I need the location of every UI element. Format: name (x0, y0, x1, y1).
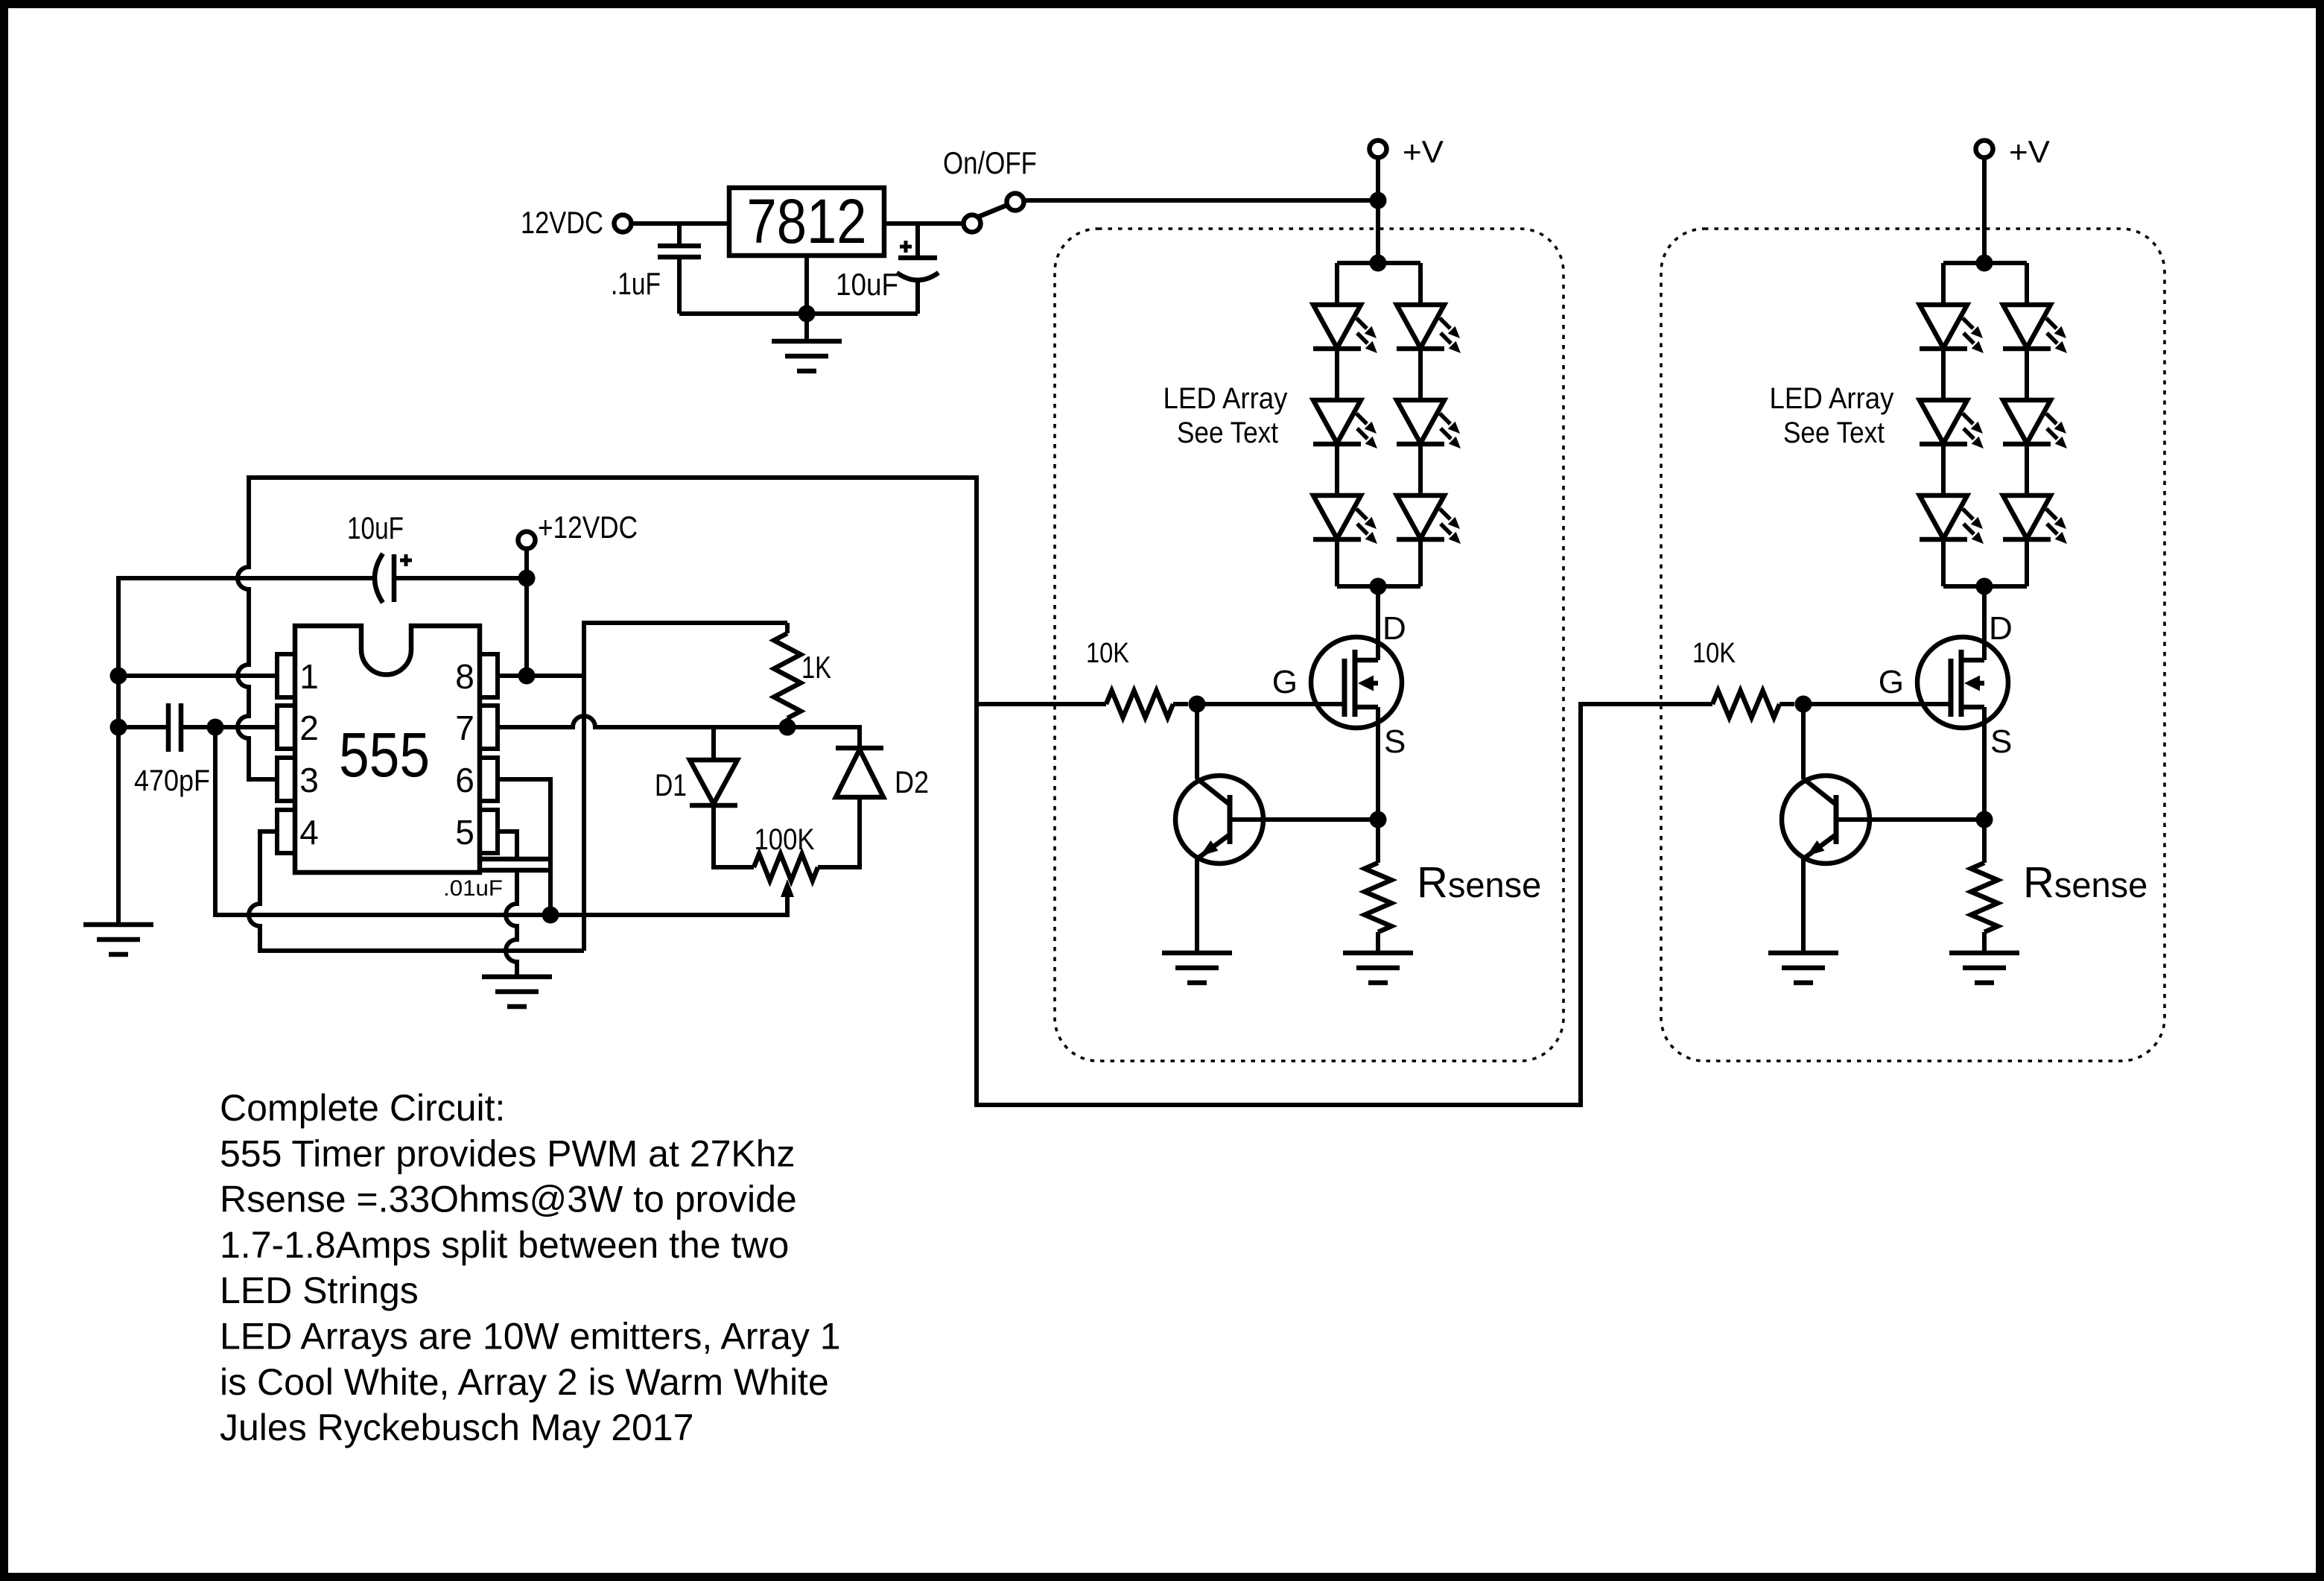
wire to ground symbol (804, 314, 809, 341)
diode D2 lead bottom (818, 797, 860, 867)
wire input to 7812 (632, 221, 729, 226)
svg-text:10uF: 10uF (347, 510, 404, 545)
capacitor C3 10uF left wire (118, 578, 374, 925)
capacitor C5 .01uF lead bottom (506, 870, 517, 977)
label +V array 1 (1403, 134, 1444, 169)
wire LED bottom rail array 1 (1337, 584, 1420, 589)
ground 7812 (772, 341, 842, 371)
capacitor C3 10uF right wire (394, 576, 527, 580)
wire 7812 ground pin (804, 256, 809, 314)
wire LED top rail array 2 (1943, 261, 2027, 265)
capacitor C4 470pF plates (168, 703, 181, 752)
svg-text:555 Timer provides PWM at 27Kh: 555 Timer provides PWM at 27Khz (220, 1132, 796, 1174)
label 10uF bypass (347, 510, 404, 545)
diode D2 triangle (836, 750, 883, 797)
diode D1 cathode bar (690, 803, 737, 808)
node pin6 timing junction (542, 907, 559, 924)
svg-text:G: G (1879, 664, 1904, 700)
LED array 2 left 3 (1920, 495, 1984, 544)
transistor Q2 BJT array 1 (1175, 776, 1263, 864)
svg-text:.1uF: .1uF (611, 266, 661, 301)
capacitor C2 10uF lead bottom (915, 282, 920, 314)
LED array 1 right 1 (1397, 305, 1461, 353)
label 555 (339, 720, 430, 790)
label D1 (655, 767, 687, 802)
wire collector drop array 2 (1801, 704, 1806, 779)
wire pin8 lead (498, 674, 584, 678)
wire vcc riser and 1K top run (584, 623, 787, 951)
label 470pF (134, 764, 210, 797)
node LED top rail junction array 2 (1976, 255, 1993, 272)
potentiometer R3 100K body (754, 854, 818, 881)
wire pin6 net (498, 779, 550, 915)
IC U2 pin numbers (299, 657, 474, 852)
resistor R2 1K leads (785, 623, 790, 727)
svg-text:LED Strings: LED Strings (220, 1270, 419, 1311)
wire LED array 2 seg 2 (1943, 444, 2027, 495)
node 470pF ground junction (110, 719, 127, 736)
svg-text:10K: 10K (1692, 638, 1736, 669)
label G array 1 (1272, 664, 1298, 700)
LED array 1 left 3 (1313, 495, 1377, 544)
node 7812 ground junction (799, 305, 816, 323)
svg-text:LED Arrays are 10W emitters, A: LED Arrays are 10W emitters, Array 1 (220, 1316, 841, 1357)
svg-text:Rsense: Rsense (2023, 858, 2147, 907)
capacitor C4 470pF right wire (183, 725, 277, 729)
wire gate array 1 (1197, 702, 1344, 706)
terminal +V array 1 (1370, 141, 1387, 158)
wire pin2 node drop and timing bus (215, 727, 787, 915)
regulator U1 7812 box (729, 188, 884, 256)
wire pin1 (118, 674, 277, 678)
capacitor C1 .1uF plates (658, 246, 701, 257)
wire LED array 2 seg 1 (1943, 349, 2027, 400)
switch S1 throw (1007, 194, 1024, 211)
LED array 1 left 1 (1313, 305, 1377, 353)
svg-text:10uF: 10uF (836, 267, 898, 302)
label 12VDC (521, 205, 603, 240)
svg-text:is Cool White, Array 2 is Warm: is Cool White, Array 2 is Warm White (220, 1361, 829, 1403)
ground left rail (83, 925, 153, 954)
svg-text:S: S (1384, 723, 1406, 760)
wire base lead array 2 (1836, 817, 1984, 822)
resistor 10K array 1 (1106, 691, 1173, 717)
LED array 2 right 2 (2003, 400, 2067, 449)
node gate junction array 2 (1795, 696, 1812, 713)
transistor Q1 MOSFET array 1 (1311, 637, 1402, 728)
wire base lead array 1 (1230, 817, 1378, 822)
LED array 2 right 3 (2003, 495, 2067, 544)
switch S1 pole (964, 215, 981, 232)
wire drain lead array 2 (1982, 586, 1987, 660)
node +V feed junction array 1 (1370, 192, 1387, 209)
ground .01uF (482, 977, 552, 1007)
resistor Rsense array 2 (1971, 863, 1998, 932)
label 100K (755, 823, 815, 856)
svg-text:1: 1 (299, 657, 319, 696)
wire LED top rail array 1 (1337, 261, 1420, 265)
wire pin7 (498, 716, 787, 727)
label 7812 (747, 186, 867, 256)
wire +V drop array 1 (1376, 158, 1380, 263)
wire gate array 2 (1803, 702, 1951, 706)
svg-text:+12VDC: +12VDC (538, 510, 638, 545)
wire pin5 net (498, 831, 517, 859)
LED array 2 left 2 (1920, 400, 1984, 449)
label .1uF (611, 266, 661, 301)
svg-text:12VDC: 12VDC (521, 205, 603, 240)
svg-text:LED Array: LED Array (1163, 382, 1288, 415)
node 10uF/+12VDC junction (518, 570, 536, 587)
ground Rsense array 2 (1949, 953, 2019, 983)
node pin8 supply junction (518, 668, 536, 685)
capacitor C3 polarity plus (400, 554, 412, 566)
dotted enclosure LED driver array 2 (1661, 229, 2165, 1061)
wire source lead array 2 (1982, 707, 1987, 820)
capacitor C2 10uF curved plate (897, 273, 939, 280)
resistor 10K leads array 1 (977, 702, 1188, 706)
label +V array 2 (2009, 134, 2050, 169)
svg-text:D2: D2 (895, 764, 929, 799)
wire emitter drop array 1 (1195, 857, 1199, 953)
transistor Q3 MOSFET array 2 (1917, 637, 2008, 728)
capacitor C4 470pF left wire (118, 725, 166, 729)
wire source lead array 1 (1376, 707, 1380, 820)
label LED Array array 1 (1163, 382, 1288, 415)
resistor Rsense array 1 (1365, 863, 1391, 932)
LED array 2 right 1 (2003, 305, 2067, 353)
svg-text:Jules Ryckebusch May 2017: Jules Ryckebusch May 2017 (220, 1407, 693, 1448)
svg-text:4: 4 (299, 813, 319, 852)
svg-text:See Text: See Text (1783, 416, 1885, 449)
potentiometer R3 wiper arrow (781, 879, 794, 897)
svg-text:+V: +V (1403, 134, 1444, 169)
svg-text:2: 2 (299, 709, 319, 747)
wire +12V to pin8 (524, 578, 529, 676)
capacitor C1 .1uF lead top (677, 224, 682, 246)
label S array 1 (1384, 723, 1406, 760)
svg-text:G: G (1272, 664, 1298, 700)
svg-text:10K: 10K (1086, 638, 1129, 669)
diode D1 triangle (690, 760, 737, 804)
diode D1 lead top (711, 727, 716, 760)
svg-text:Complete Circuit:: Complete Circuit: (220, 1087, 505, 1129)
label See Text array 1 (1177, 416, 1278, 449)
switch S1 lever (969, 203, 1013, 221)
resistor 10K array 2 (1712, 691, 1779, 717)
label +12VDC (538, 510, 638, 545)
transistor Q4 BJT array 2 (1782, 776, 1870, 864)
wire +V drop array 2 (1982, 158, 1987, 263)
capacitor C3 10uF straight plate (392, 554, 397, 602)
terminal 12VDC input (615, 215, 632, 232)
node LED bottom junction array 2 (1976, 578, 1993, 595)
svg-text:100K: 100K (755, 823, 815, 856)
capacitor C5 .01uF plates (481, 859, 553, 870)
svg-text:.01uF: .01uF (443, 876, 503, 901)
label D2 (895, 764, 929, 799)
svg-text:1.7-1.8Amps split between the: 1.7-1.8Amps split between the two (220, 1224, 789, 1266)
node pin2 junction (207, 719, 224, 736)
wire drain lead array 1 (1376, 586, 1380, 660)
IC U2 555 body (295, 626, 480, 872)
label Rsense array 1 (1417, 858, 1541, 907)
terminal +12VDC (518, 532, 536, 549)
wire ground rail 7812 (679, 311, 918, 316)
svg-text:7: 7 (455, 709, 474, 747)
capacitor C1 .1uF lead bottom (677, 257, 682, 314)
resistor Rsense leads array 2 (1982, 820, 1987, 953)
wire LED array 1 seg 2 (1337, 444, 1420, 495)
svg-text:LED Array: LED Array (1770, 382, 1894, 415)
label 10K array 1 (1086, 638, 1129, 669)
capacitor C2 10uF lead top (915, 224, 920, 258)
svg-text:6: 6 (455, 761, 474, 799)
svg-text:D: D (1382, 610, 1406, 647)
wire LED col bottoms array 1 (1337, 539, 1420, 586)
wire LED col drops array 2 (1943, 263, 2027, 305)
label G array 2 (1879, 664, 1904, 700)
ground Rsense array 1 (1343, 953, 1413, 983)
svg-text:S: S (1990, 723, 2012, 760)
diode D1 lead bottom (714, 805, 754, 867)
resistor R2 1K (774, 633, 801, 718)
label 10K array 2 (1692, 638, 1736, 669)
svg-text:Rsense =.33Ohms@3W to provide: Rsense =.33Ohms@3W to provide (220, 1179, 797, 1220)
svg-text:Rsense: Rsense (1417, 858, 1541, 907)
node LED top rail junction array 1 (1370, 255, 1387, 272)
svg-text:On/OFF: On/OFF (943, 145, 1037, 180)
label Rsense array 2 (2023, 858, 2147, 907)
label D array 2 (1989, 610, 2013, 647)
label See Text array 2 (1783, 416, 1885, 449)
wire emitter drop array 2 (1801, 857, 1806, 953)
svg-text:1K: 1K (801, 650, 831, 685)
LED array 2 left 1 (1920, 305, 1984, 353)
wire LED col bottoms array 2 (1943, 539, 2027, 586)
node gate junction array 1 (1189, 696, 1206, 713)
svg-text:See Text: See Text (1177, 416, 1278, 449)
svg-text:470pF: 470pF (134, 764, 210, 797)
ground BJT array 2 (1768, 953, 1838, 983)
dotted enclosure LED driver array 1 (1055, 229, 1563, 1061)
wire LED array 1 seg 1 (1337, 349, 1420, 400)
ground BJT array 1 (1162, 953, 1232, 983)
diode D2 cathode bar (836, 746, 883, 751)
label 1K (801, 650, 831, 685)
label LED Array array 2 (1770, 382, 1894, 415)
wire pin4 net (249, 831, 584, 951)
capacitor C2 10uF plus plate (898, 256, 937, 261)
label .01uF (443, 876, 503, 901)
label D array 1 (1382, 610, 1406, 647)
node 1K bottom junction (779, 719, 796, 736)
wire switch to +V node (1023, 198, 1378, 203)
wire pin7 to D2 (787, 727, 860, 748)
LED array 1 right 3 (1397, 495, 1461, 544)
capacitor C3 10uF curved plate (375, 554, 383, 603)
svg-text:+V: +V (2009, 134, 2050, 169)
terminal +V array 2 (1976, 141, 1993, 158)
svg-text:7812: 7812 (747, 186, 867, 256)
label 10uF (836, 267, 898, 302)
resistor Rsense leads array 1 (1376, 820, 1380, 953)
wire collector drop array 1 (1195, 704, 1199, 779)
svg-text:8: 8 (455, 657, 474, 696)
resistor 10K leads array 2 (1712, 702, 1794, 706)
IC U2 pin stubs (277, 654, 498, 853)
label S array 2 (1990, 723, 2012, 760)
notes text block (220, 1087, 841, 1448)
LED array 1 right 2 (1397, 400, 1461, 449)
wire LED bottom rail array 2 (1943, 584, 2027, 589)
LED array 1 left 2 (1313, 400, 1377, 449)
svg-text:D: D (1989, 610, 2013, 647)
node source junction array 1 (1370, 811, 1387, 828)
svg-text:5: 5 (455, 813, 474, 852)
svg-text:D1: D1 (655, 767, 687, 802)
wire 555 output net (238, 478, 1712, 1105)
node pin1 ground junction (110, 668, 127, 685)
wire terminal to junction (524, 548, 529, 578)
label On/OFF (943, 145, 1037, 180)
wire LED col drops array 1 (1337, 263, 1420, 305)
wire 7812 output (884, 221, 963, 226)
node source junction array 2 (1976, 811, 1993, 828)
capacitor C2 polarity plus (900, 241, 912, 253)
svg-text:555: 555 (339, 720, 430, 790)
node LED bottom junction array 1 (1370, 578, 1387, 595)
svg-text:3: 3 (299, 761, 319, 799)
